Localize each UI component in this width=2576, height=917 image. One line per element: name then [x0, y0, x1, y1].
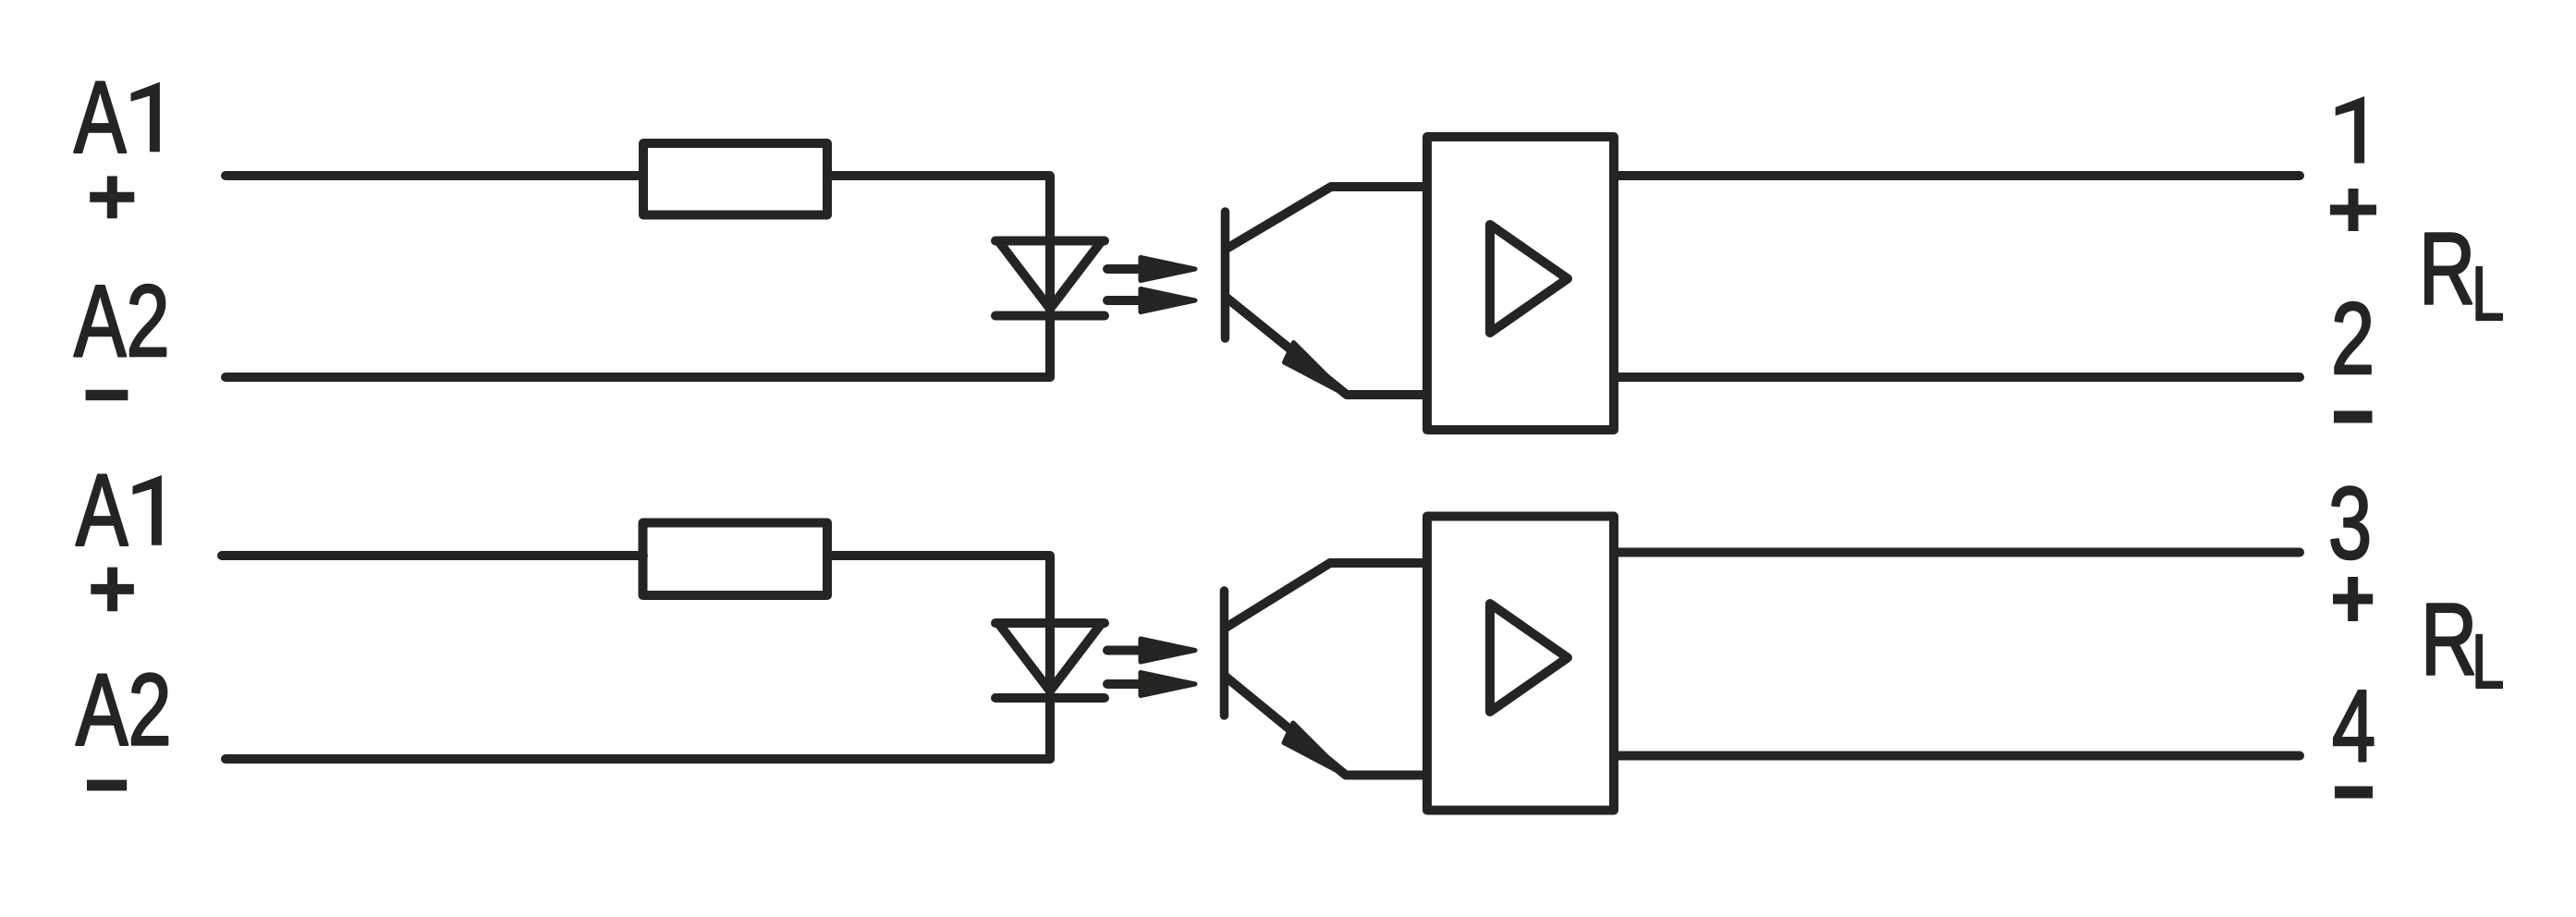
node 2 (channel 1 output -) — [2331, 281, 2375, 395]
wire A2 (channel 1) — [226, 373, 1050, 382]
svg-text:L: L — [2472, 251, 2504, 336]
amplifier triangle U2 (channel 2) — [1490, 604, 1568, 712]
minus sign channel 1 input — [86, 390, 128, 400]
resistor R2 (series input resistor, channel 2) — [643, 523, 828, 596]
resistor R1 (series input resistor, channel 1) — [643, 143, 827, 215]
light arrow 1 (channel 2) — [1107, 639, 1195, 662]
node 4 (channel 2 output -) — [2332, 668, 2375, 782]
node 3 (channel 2 output +) — [2328, 466, 2372, 580]
plus sign channel 2 output — [2333, 577, 2373, 621]
plus sign channel 1 input — [90, 177, 134, 219]
svg-text:A2: A2 — [76, 653, 172, 766]
svg-text:A: A — [74, 60, 127, 174]
svg-text:2: 2 — [2331, 281, 2375, 395]
load resistor RL label (channel 2) — [2421, 582, 2504, 704]
amplifier triangle U1 (channel 1) — [1490, 225, 1568, 333]
phototransistor Q2 emitter arrow (channel 2) — [1284, 723, 1346, 776]
LED D1 cathode bar (channel 1) — [995, 312, 1105, 321]
svg-text:3: 3 — [2328, 466, 2372, 580]
svg-text:4: 4 — [2332, 668, 2375, 782]
minus sign channel 2 input — [87, 780, 127, 791]
svg-text:R: R — [2419, 212, 2475, 325]
LED D2 anode bar (channel 2) — [995, 618, 1105, 628]
phototransistor Q2 emitter (channel 2) — [1226, 677, 1425, 776]
phototransistor Q2 collector (channel 2) — [1226, 563, 1425, 628]
phototransistor Q2 base line (channel 2) — [1220, 591, 1229, 715]
light arrow 1 (channel 1) — [1107, 258, 1195, 281]
output driver block U2 (channel 2) — [1427, 517, 1614, 811]
phototransistor Q1 emitter (channel 1) — [1227, 298, 1425, 395]
minus sign channel 1 output — [2334, 411, 2373, 423]
wire output 3 (channel 2) — [1616, 548, 2300, 557]
wire A1 to resistor (channel 1) — [226, 171, 643, 180]
node A2 (channel 2 input -) — [76, 653, 172, 766]
phototransistor Q1 emitter arrow (channel 1) — [1285, 343, 1347, 396]
wire resistor to LED anode corner (channel 2) — [827, 556, 1050, 759]
wire A1 to resistor (channel 2) — [222, 551, 643, 560]
output driver block U1 (channel 1) — [1427, 137, 1614, 430]
node A2 (channel 1 input -) — [74, 263, 170, 377]
svg-text:L: L — [2472, 618, 2504, 704]
wire resistor to LED anode corner (channel 1) — [827, 176, 1050, 377]
LED D1 anode bar (channel 1) — [995, 237, 1105, 246]
wire A2 (channel 2) — [226, 754, 1050, 764]
wire output 4 (channel 2) — [1616, 752, 2300, 761]
node 1 (channel 1 output +) — [2336, 96, 2364, 163]
plus sign channel 2 input — [91, 568, 134, 612]
load resistor RL label (channel 1) — [2419, 212, 2504, 336]
LED D2 triangle (channel 2) — [998, 623, 1102, 691]
node A1 (channel 1 input +) — [74, 60, 160, 174]
node A1 (channel 2 input +) — [76, 453, 162, 567]
svg-text:A2: A2 — [74, 263, 170, 377]
phototransistor Q1 base line (channel 1) — [1221, 212, 1230, 338]
minus sign channel 2 output — [2335, 787, 2373, 799]
svg-text:A: A — [76, 453, 128, 567]
light arrow 2 (channel 2) — [1107, 673, 1195, 696]
wire output 1 (channel 1) — [1616, 171, 2300, 180]
light arrow 2 (channel 1) — [1107, 289, 1195, 312]
svg-text:R: R — [2421, 582, 2477, 696]
LED D1 triangle (channel 1) — [998, 241, 1102, 310]
phototransistor Q1 collector (channel 1) — [1227, 187, 1425, 249]
LED D2 cathode bar (channel 2) — [995, 693, 1105, 703]
wire output 2 (channel 1) — [1616, 373, 2300, 382]
plus sign channel 1 output — [2330, 189, 2376, 231]
